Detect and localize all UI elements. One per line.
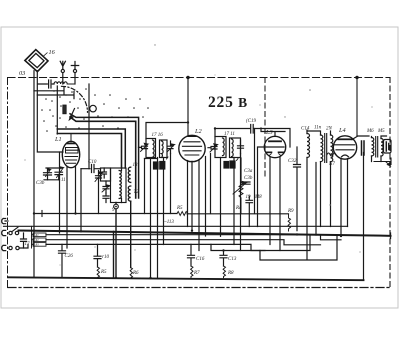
capacitor C10: [81, 165, 101, 173]
padder small rect: [63, 105, 66, 114]
svg-text:M5: M5: [377, 129, 385, 134]
IF2 coil left: [223, 138, 225, 156]
IF1 iron core: [154, 162, 159, 169]
loudspeaker: [384, 140, 392, 154]
svg-text:17 11: 17 11: [224, 132, 235, 137]
L4 cathode cup: [342, 155, 349, 157]
L2 plate bar: [184, 141, 200, 143]
svg-text:R2: R2: [35, 239, 40, 242]
svg-text:L4: L4: [338, 127, 346, 134]
svg-text:M6: M6: [366, 129, 374, 134]
svg-text:L3: L3: [265, 129, 273, 136]
L4 plate wire to OT: [352, 136, 369, 140]
svg-text:11n: 11n: [314, 126, 322, 131]
capacitor C26: [59, 244, 66, 277]
L3 diode plates: [267, 151, 284, 153]
wire: [88, 84, 90, 169]
tube L1 inner box: [66, 148, 79, 154]
svg-text:R9: R9: [287, 209, 294, 214]
IF2 box right: [230, 138, 241, 158]
svg-text:M8: M8: [254, 195, 262, 200]
lower link line 2: [260, 236, 337, 260]
coupling cap: [362, 141, 365, 155]
antenna symbol: [60, 61, 65, 69]
wire cathode L1: [59, 152, 61, 233]
volume pot: [240, 158, 242, 182]
pointer arrow: [70, 109, 75, 120]
IF2 iron core: [224, 162, 229, 169]
IF2 bottom wires: [220, 158, 222, 237]
tuning gang dotted area: [41, 88, 149, 132]
IF transformer 2 box left: [215, 137, 226, 158]
IF1 trimmer left: [139, 146, 148, 148]
svg-text:R5: R5: [176, 206, 183, 211]
antenna secondary coil lower: [128, 186, 130, 201]
staircase line B: [46, 240, 321, 245]
resistor R6 chain: [130, 268, 132, 279]
trimmer cap C2: [44, 168, 60, 180]
svg-text:N7: N7: [328, 162, 335, 167]
resistor box R2: [33, 238, 46, 242]
osc coil inside box: [119, 171, 121, 199]
staircase line A: [46, 235, 341, 240]
resistor vertical: [97, 267, 99, 278]
svg-text:R7: R7: [193, 271, 200, 276]
svg-text:C32: C32: [288, 159, 297, 164]
trimmer C11: [96, 176, 102, 214]
IF1 coil right: [162, 141, 164, 157]
capacitor C17: [21, 233, 27, 248]
dial lamp circle: [90, 105, 97, 112]
svg-text:~113: ~113: [164, 220, 174, 225]
shunt cap: [242, 182, 251, 184]
svg-text:11: 11: [61, 178, 66, 183]
osc padder sub-box: [101, 168, 111, 181]
h1 AVC line: [34, 213, 289, 215]
AF transformer primary: [321, 135, 323, 162]
battery connector 2: [2, 230, 6, 235]
wire T2: [144, 159, 146, 214]
oscillator coil box: [111, 168, 127, 203]
IF transformer 1 box left: [146, 139, 156, 158]
svg-text:R1: R1: [35, 234, 40, 237]
svg-text:Rd: Rd: [235, 206, 242, 211]
shield box left dash-dot: [7, 78, 9, 288]
AF transformer core: [325, 134, 327, 163]
svg-text:13: 13: [133, 163, 139, 168]
junction dots: [33, 212, 35, 214]
lower link line: [211, 236, 310, 251]
loop tap line 2: [37, 91, 74, 98]
ground bus: [8, 277, 364, 280]
antenna feeder left wire: [33, 71, 35, 278]
svg-text:R8: R8: [227, 271, 234, 276]
antenna feeder right wire: [37, 71, 63, 152]
svg-text:C16: C16: [196, 257, 205, 262]
wire: [145, 158, 158, 160]
R box feed vertical: [32, 226, 34, 248]
gang wire bundle A: [70, 114, 139, 198]
wire tone to ground: [363, 153, 365, 281]
capacitor C1: [38, 80, 54, 88]
grid spring to L4: [327, 153, 336, 156]
svg-text:16: 16: [49, 49, 56, 56]
svg-text:C14: C14: [301, 127, 310, 132]
svg-text:225B: 225B: [208, 94, 248, 111]
terminal 9: [114, 204, 119, 209]
IF2 cap right: [238, 140, 244, 154]
L3 top wire: [261, 128, 285, 136]
svg-text:r10: r10: [102, 255, 109, 260]
wires below osc: [115, 203, 117, 278]
resistor box R3: [33, 243, 46, 247]
AF transformer wires: [307, 131, 321, 135]
tube L4 envelope: [333, 136, 356, 159]
wire: [254, 129, 256, 214]
thick main bus: [19, 231, 391, 236]
svg-text:R6: R6: [132, 271, 139, 276]
svg-text:L2: L2: [194, 128, 203, 135]
OT secondary: [381, 139, 383, 157]
tube L1 top cap wire: [70, 134, 72, 143]
L3 plate: [269, 140, 281, 142]
cap C32: [294, 147, 301, 231]
resistor box R1: [33, 233, 46, 237]
battery connector 3: [2, 245, 6, 250]
L4 grids: [335, 144, 356, 146]
L2 pins: [187, 161, 189, 227]
ground symbol: [71, 62, 78, 70]
OT wires: [371, 137, 373, 162]
svg-text:19: 19: [246, 195, 252, 200]
loop tap line 1: [34, 87, 64, 95]
tube L2 envelope: [179, 135, 205, 161]
svg-text:2N: 2N: [326, 127, 333, 132]
cap C9: [246, 196, 253, 227]
L3 bottom pins: [269, 157, 271, 245]
IF2 trimmer left: [208, 147, 217, 150]
svg-text:(C19: (C19: [246, 119, 257, 124]
wire: [80, 169, 82, 232]
IF2 coil right: [232, 139, 234, 157]
IF1 box right: [160, 140, 168, 158]
wire: [356, 78, 358, 136]
shield box top dashed: [8, 77, 390, 79]
svg-text:C3b: C3b: [244, 176, 253, 181]
IF1 coil left: [153, 140, 155, 157]
svg-text:C26: C26: [65, 254, 74, 259]
svg-text:17: 17: [25, 242, 31, 247]
resistor R5 zigzag: [177, 212, 188, 216]
svg-text:L1: L1: [54, 136, 62, 143]
svg-text:17 16: 17 16: [152, 133, 164, 138]
svg-text:T2: T2: [134, 190, 140, 195]
wire: [44, 179, 60, 181]
tube L1 electrodes: [65, 156, 78, 158]
osc caps in sub-box: [102, 168, 107, 178]
svg-text:03: 03: [19, 70, 25, 77]
section divider dashed: [264, 78, 266, 177]
RC chain C13 R8: [220, 251, 227, 267]
loop antenna diamond: [25, 50, 48, 72]
antenna secondary coil upper: [128, 167, 130, 182]
L4 plate: [338, 138, 352, 140]
resistor R9 vertical: [288, 214, 290, 231]
battery connector 1: [2, 219, 8, 224]
IF1 bottom wires: [157, 158, 159, 278]
shield box right dashed: [389, 78, 391, 288]
L3 left pin: [258, 147, 265, 227]
C19 coupling wire: [215, 125, 290, 148]
osc trimmer caps lower: [103, 181, 109, 193]
svg-text:C13: C13: [228, 257, 237, 262]
shield box bottom dash-dot: [8, 287, 390, 289]
svg-text:R3: R3: [35, 244, 40, 247]
output transformer primary: [372, 138, 374, 157]
IF1 cap right: [168, 141, 174, 154]
speaker return wire: [374, 158, 391, 165]
AF choke coil: [307, 134, 310, 158]
staircase line C: [46, 244, 265, 250]
svg-text:R5: R5: [100, 270, 107, 275]
tube L3 envelope: [264, 136, 285, 157]
wire: [187, 78, 189, 137]
svg-text:C3a: C3a: [244, 169, 253, 174]
tube L1 envelope: [62, 141, 79, 167]
wire: [315, 163, 317, 236]
wire grid L2: [146, 123, 188, 139]
L1 pin wires: [66, 167, 68, 249]
svg-text:C3b: C3b: [36, 181, 45, 186]
svg-text:C10: C10: [88, 160, 97, 165]
OT core: [376, 137, 378, 158]
trimmer cap C3: [55, 172, 63, 180]
RC chain C16 R7: [188, 244, 195, 266]
tube L1 grid cap bar: [67, 143, 75, 145]
thin bus line: [4, 225, 348, 227]
osc coil upper half tap: [121, 168, 123, 203]
gang wire bundle B: [57, 129, 125, 168]
L4 pins: [340, 159, 342, 237]
cap tick on AVC line: [41, 211, 43, 217]
L2 top cap: [188, 135, 196, 137]
AF transformer secondary: [331, 135, 333, 162]
L3 grid: [266, 146, 284, 148]
RC chain r10: [94, 244, 101, 267]
wire: [56, 86, 58, 134]
thick vertical: [113, 232, 115, 278]
gang boundary arc dash-dot: [62, 86, 88, 112]
antenna coil: [54, 82, 74, 84]
